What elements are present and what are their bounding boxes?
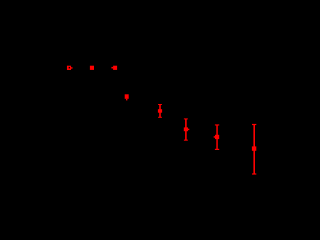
data point P8 with error bar	[252, 124, 256, 175]
data point P2	[90, 66, 94, 70]
data point P4	[125, 94, 129, 100]
data point P3	[111, 66, 117, 70]
data point P1	[67, 66, 73, 70]
data point P7 with error bar	[214, 124, 220, 150]
data point P5 with error bar	[158, 104, 162, 118]
data point P6 with error bar	[184, 118, 190, 140]
